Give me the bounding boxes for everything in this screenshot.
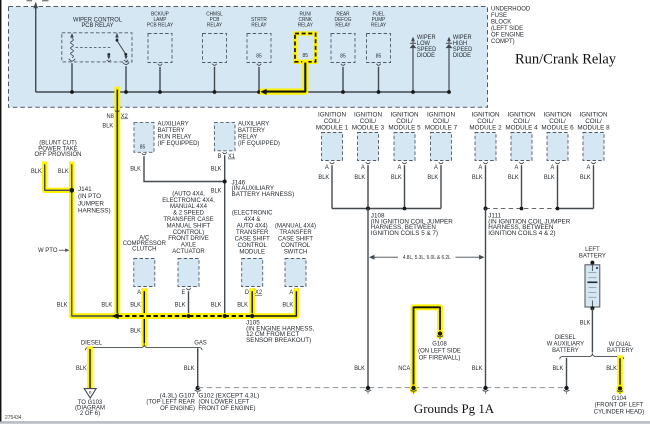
border frame bottom edge xyxy=(0,421,650,424)
svg-text:FRONT OF ENGINE): FRONT OF ENGINE) xyxy=(198,405,255,412)
svg-text:BLK: BLK xyxy=(318,175,329,181)
svg-text:BLK: BLK xyxy=(427,175,438,181)
svg-text:PCB RELAY: PCB RELAY xyxy=(81,22,114,29)
svg-text:MODULE 3: MODULE 3 xyxy=(352,124,385,131)
svg-text:BLK: BLK xyxy=(553,366,564,372)
svg-text:A: A xyxy=(289,290,293,296)
svg-text:DIESEL: DIESEL xyxy=(81,340,103,347)
svg-text:85: 85 xyxy=(376,54,382,60)
svg-text:BLK: BLK xyxy=(237,303,248,309)
wire: shift control module ground (highlighted) xyxy=(249,291,255,316)
svg-text:Run/Crank Relay: Run/Crank Relay xyxy=(515,52,617,68)
svg-text:OF ENGINE): OF ENGINE) xyxy=(160,405,195,412)
svg-text:D: D xyxy=(245,290,250,296)
svg-text:85: 85 xyxy=(303,53,309,59)
relay: wiper control PCB relay xyxy=(62,33,132,62)
wire: PTO stub 1 (highlighted) xyxy=(45,164,69,190)
svg-text:A: A xyxy=(515,165,519,171)
svg-text:BLK: BLK xyxy=(101,303,112,309)
wire: gas ground xyxy=(197,348,199,386)
wire: axle actuator ground xyxy=(188,291,190,316)
svg-text:MODULE 6: MODULE 6 xyxy=(541,124,574,131)
svg-text:G108: G108 xyxy=(432,340,447,347)
svg-text:RELAY: RELAY xyxy=(207,23,223,29)
svg-text:GAS: GAS xyxy=(194,340,207,347)
svg-text:BLK: BLK xyxy=(354,175,365,181)
junction J108 xyxy=(366,207,370,211)
svg-text:(ON LEFT SIDE: (ON LEFT SIDE xyxy=(418,348,461,355)
svg-text:CYLINDER HEAD): CYLINDER HEAD) xyxy=(594,408,645,415)
wire: ignition coil module 6 ground (BLK) xyxy=(557,165,559,208)
svg-text:IGNITION COILS 5 & 7): IGNITION COILS 5 & 7) xyxy=(371,230,438,237)
svg-text:J141: J141 xyxy=(78,186,92,193)
svg-text:A: A xyxy=(551,165,555,171)
svg-text:BATTERY: BATTERY xyxy=(552,347,579,354)
wire: ignition coil module 5 ground (BLK) xyxy=(404,165,406,208)
svg-text:(IF EQUIPPED): (IF EQUIPPED) xyxy=(238,140,280,147)
svg-text:A: A xyxy=(137,290,141,296)
svg-text:MODULE 4: MODULE 4 xyxy=(505,124,538,131)
ground G104 xyxy=(616,385,624,393)
ground splice NCA leg xyxy=(410,384,417,391)
wire: diesel ground to G103 (highlighted) xyxy=(87,349,93,388)
svg-text:BLK: BLK xyxy=(76,366,87,372)
svg-text:MODULE: MODULE xyxy=(239,249,265,256)
wire: wiper relay coil pin to bus xyxy=(69,59,75,61)
wire: ground bus to G108 (highlighted) xyxy=(414,307,441,386)
wire: w dual battery ground to G104 (highlighted) xyxy=(617,358,623,385)
ground G102/G107 xyxy=(196,386,200,390)
junction J105 xyxy=(250,314,254,318)
wire: ignition coil module 1 ground (BLK) xyxy=(331,165,333,208)
svg-text:BLK: BLK xyxy=(211,167,222,173)
wire: ignition coil module 8 ground (BLK) xyxy=(593,165,595,208)
svg-text:DIODE: DIODE xyxy=(417,53,435,59)
svg-text:MODULE 5: MODULE 5 xyxy=(388,124,421,131)
svg-text:BATTERY: BATTERY xyxy=(579,253,607,260)
svg-text:BLK: BLK xyxy=(184,366,195,372)
svg-text:A: A xyxy=(587,165,591,171)
node top feed (cut off) xyxy=(35,3,37,92)
svg-text:DIODE: DIODE xyxy=(453,53,471,59)
svg-text:BLK: BLK xyxy=(391,175,402,181)
wire: A/C clutch ground (highlighted) xyxy=(142,291,148,343)
svg-text:BLK: BLK xyxy=(544,175,555,181)
svg-text:N8: N8 xyxy=(107,114,115,120)
svg-text:MODULE 8: MODULE 8 xyxy=(577,124,610,131)
svg-text:CLUTCH: CLUTCH xyxy=(132,246,157,253)
wire: fuse block ground bus xyxy=(36,91,449,93)
svg-text:E: E xyxy=(182,290,186,296)
svg-text:BATTERY HARNESS): BATTERY HARNESS) xyxy=(232,191,295,198)
svg-text:A: A xyxy=(479,165,483,171)
svg-text:PCB RELAY: PCB RELAY xyxy=(147,23,174,29)
wire: left coil jumper harness collector xyxy=(332,208,441,210)
svg-text:ACTUATOR: ACTUATOR xyxy=(172,248,205,255)
node: diesel/gas split xyxy=(86,344,203,350)
svg-text:MODULE 7: MODULE 7 xyxy=(425,124,458,131)
relay: auxiliary battery run relay xyxy=(134,123,154,153)
node: battery ground split xyxy=(560,353,624,359)
svg-text:RELAY: RELAY xyxy=(251,23,267,29)
svg-text:HARNESS): HARNESS) xyxy=(78,208,111,215)
wire: PTO stub 2 / J141 trunk (highlighted) xyxy=(72,164,118,316)
relay: back-up lamp PCB relay xyxy=(148,34,172,63)
wire: run/crank relay to bus (highlighted) xyxy=(263,63,305,92)
diode: wiper high speed diode xyxy=(448,40,450,44)
svg-text:BLK: BLK xyxy=(354,366,365,372)
svg-text:BLK: BLK xyxy=(57,303,68,309)
svg-text:85: 85 xyxy=(340,54,346,60)
svg-text:W PTO: W PTO xyxy=(38,247,58,254)
svg-text:BLK: BLK xyxy=(130,329,141,335)
svg-text:JUMPER: JUMPER xyxy=(78,200,104,207)
svg-text:OFF PROVISION: OFF PROVISION xyxy=(35,151,82,158)
junction J146 xyxy=(223,180,227,184)
svg-text:RELAY: RELAY xyxy=(371,23,387,29)
wire: J111 to ground bus xyxy=(485,209,487,387)
svg-text:85: 85 xyxy=(140,144,146,150)
svg-text:2 OF 6): 2 OF 6) xyxy=(80,410,100,417)
svg-text:NCA: NCA xyxy=(398,366,410,372)
wire: shift control switch ground (highlighted) xyxy=(252,291,296,316)
wire: ignition coil module 3 ground (BLK) xyxy=(367,165,369,208)
wire: wiper relay switch pin to bus xyxy=(123,62,129,64)
svg-text:BLK: BLK xyxy=(580,175,591,181)
diode: wiper low speed diode xyxy=(412,40,414,44)
underhood fuse block (dashed box) xyxy=(9,7,488,108)
svg-text:Grounds Pg 1A: Grounds Pg 1A xyxy=(414,402,495,416)
svg-text:(IN PTO: (IN PTO xyxy=(78,193,101,200)
svg-text:BLK: BLK xyxy=(211,303,222,309)
svg-text:COMPT): COMPT) xyxy=(491,38,515,45)
wire: diesel w auxiliary battery ground xyxy=(566,358,568,386)
svg-text:BLK: BLK xyxy=(31,169,42,175)
relay: rear defog relay xyxy=(331,34,355,63)
relay: CHMSL PCB relay xyxy=(203,34,227,63)
svg-text:BLK: BLK xyxy=(472,175,483,181)
ground splice (J111 leg) xyxy=(483,386,487,390)
svg-text:A: A xyxy=(398,165,402,171)
wire: run/crank ground trunk (highlighted) xyxy=(114,90,120,317)
svg-text:BLK: BLK xyxy=(58,169,69,175)
svg-text:BLK: BLK xyxy=(102,124,113,130)
svg-text:RELAY: RELAY xyxy=(298,23,314,29)
svg-text:BLK: BLK xyxy=(130,303,141,309)
svg-text:A: A xyxy=(434,165,438,171)
svg-text:BLK: BLK xyxy=(211,189,222,195)
wire: J108 to ground bus xyxy=(367,209,369,387)
svg-text:B: B xyxy=(89,390,92,395)
wire: ignition coil module 2 ground (BLK) xyxy=(485,165,487,208)
wire: ignition coil module 7 ground (BLK) xyxy=(440,165,442,208)
wire: aux battery relay / aux battery harness to bus xyxy=(224,155,226,316)
svg-text:SWITCH: SWITCH xyxy=(284,249,308,256)
junction J111 xyxy=(484,207,488,211)
ground splice (aux battery leg) xyxy=(564,386,568,390)
svg-text:A: A xyxy=(361,165,365,171)
wire: battery negative to split xyxy=(591,308,593,352)
junction (aux battery harness ground) xyxy=(223,314,227,318)
ground splice (J108 leg) xyxy=(366,386,370,390)
wire: ignition coil module 4 ground (BLK) xyxy=(521,165,523,208)
svg-text:OF FIREWALL): OF FIREWALL) xyxy=(419,355,461,362)
svg-text:BLK: BLK xyxy=(472,366,483,372)
connector N8 X2 xyxy=(115,111,119,113)
svg-text:MODULE 1: MODULE 1 xyxy=(316,124,349,131)
relay: fuel pump relay xyxy=(367,34,391,63)
svg-text:B: B xyxy=(218,154,222,160)
wire: right coil jumper harness collector xyxy=(486,208,558,210)
relay: auxiliary battery relay xyxy=(214,123,235,151)
svg-text:BLK: BLK xyxy=(580,320,591,326)
svg-text:85: 85 xyxy=(256,54,262,60)
svg-text:IGNITION COILS 4 & 2): IGNITION COILS 4 & 2) xyxy=(488,230,555,237)
connector B X1 xyxy=(223,152,227,154)
svg-text:SENSOR BREAKOUT): SENSOR BREAKOUT) xyxy=(246,337,311,344)
ground G108 xyxy=(436,330,443,337)
svg-text:MODULE 2: MODULE 2 xyxy=(469,124,502,131)
svg-text:275434: 275434 xyxy=(5,415,22,421)
junction (axle actuator ground) xyxy=(187,314,191,318)
svg-text:RELAY: RELAY xyxy=(335,23,351,29)
arrow to G103 xyxy=(84,389,96,398)
wire: aux battery run relay to J146 xyxy=(142,153,146,155)
svg-text:BATTERY: BATTERY xyxy=(607,347,634,354)
svg-text:BLK: BLK xyxy=(606,366,617,372)
svg-text:(IF EQUIPPED): (IF EQUIPPED) xyxy=(158,140,200,147)
wire: common ground dashed bus xyxy=(198,387,567,389)
svg-text:4.8L, 5.3L, 6.0L & 6.2L: 4.8L, 5.3L, 6.0L & 6.2L xyxy=(403,255,451,261)
svg-text:BLK: BLK xyxy=(282,303,293,309)
svg-text:BLK: BLK xyxy=(175,303,186,309)
border frame left edge xyxy=(0,0,2,424)
wire: engine harness ground bus (highlighted) xyxy=(117,313,252,319)
svg-text:A: A xyxy=(325,165,329,171)
relay: starter relay xyxy=(247,34,271,63)
svg-text:BLK: BLK xyxy=(130,167,141,173)
junction J141 xyxy=(69,188,74,193)
svg-text:BLK: BLK xyxy=(508,175,519,181)
